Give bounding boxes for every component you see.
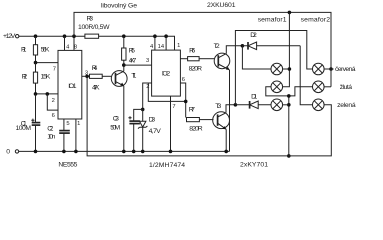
node C1 gnd: [34, 150, 38, 154]
node rail pin14 IO2: [164, 34, 168, 38]
pin 6 IO2: [180, 77, 185, 117]
node rail R1: [34, 34, 38, 38]
svg-text:100M: 100M: [16, 125, 32, 132]
node pin6 branch: [46, 92, 50, 96]
svg-text:žlutá: žlutá: [340, 84, 352, 91]
svg-text:C3: C3: [113, 116, 119, 123]
svg-text:8: 8: [74, 44, 77, 50]
node R1 R2 pin7: [34, 61, 38, 65]
svg-text:1/2MH7474: 1/2MH7474: [149, 162, 185, 169]
svg-text:C2: C2: [47, 126, 53, 133]
wire T1 emitter: [123, 86, 125, 152]
diode D2: [242, 32, 300, 50]
wire n6 vertical: [288, 96, 290, 156]
svg-text:1: 1: [177, 43, 180, 49]
resistor R2: [22, 63, 51, 94]
svg-text:47K: 47K: [92, 85, 100, 92]
pin 4 IO1: [65, 36, 71, 50]
node C2 gnd: [62, 150, 66, 154]
svg-text:0: 0: [6, 149, 10, 156]
svg-text:+12V: +12V: [3, 33, 16, 40]
svg-text:4,7V: 4,7V: [149, 128, 162, 135]
transistor T3: [213, 103, 230, 130]
node green1 right: [287, 103, 291, 107]
svg-text:D1: D1: [251, 93, 257, 100]
svg-text:100R/0,5W: 100R/0,5W: [78, 24, 110, 31]
wire NE555 output bus lower line to green2: [87, 76, 331, 156]
svg-text:R3: R3: [87, 15, 94, 22]
svg-text:NE555: NE555: [58, 162, 77, 169]
wire D2 to green2 lamp: [300, 46, 312, 105]
capacitor C2: [47, 126, 70, 152]
svg-text:6: 6: [182, 77, 185, 83]
pin 14 IO2: [158, 36, 166, 50]
wire yellow1 left loop to n6 and yellow2: [266, 87, 313, 96]
wire +12V rail: [19, 35, 85, 37]
pin 3 IO1 output: [82, 70, 90, 76]
resistor R7: [187, 107, 214, 133]
svg-text:6: 6: [52, 113, 55, 119]
pin 5 IO1: [64, 119, 70, 131]
wire T2 emitter: [229, 70, 231, 151]
wire lamp supply top line: [74, 12, 331, 86]
node T2 collector D2: [241, 44, 245, 48]
wire pin2 IO1: [36, 93, 59, 95]
node T3 emitter gnd: [224, 150, 228, 154]
resistor R6: [188, 47, 215, 72]
resistor R3: [78, 15, 110, 38]
svg-text:červená: červená: [335, 66, 356, 73]
node red2 right: [329, 67, 333, 71]
pin 2 IO2: [143, 83, 152, 109]
svg-text:IO1: IO1: [68, 83, 76, 90]
node rail pin4 IO2: [153, 34, 157, 38]
op-amp IO1 box NE555: [58, 50, 82, 119]
svg-text:zelená: zelená: [337, 102, 356, 109]
lamp red2: [313, 63, 325, 75]
node red1 right: [288, 67, 292, 71]
svg-text:IO2: IO2: [162, 71, 170, 78]
svg-text:D3: D3: [149, 116, 156, 123]
node D3 gnd: [141, 150, 145, 154]
node R2 bottom: [34, 92, 38, 96]
node C3 gnd: [132, 150, 136, 154]
node pin7 gnd: [169, 150, 173, 154]
svg-text:R1: R1: [21, 47, 27, 54]
wire green1 right: [283, 104, 289, 106]
wire bridge T3 to red2 lamp: [235, 31, 312, 105]
wire 0V rail: [19, 150, 230, 152]
node T1 emitter gnd: [122, 150, 126, 154]
node feedback pin6: [184, 100, 188, 104]
node top line semafor branch: [288, 11, 292, 15]
resistor R1: [21, 36, 50, 62]
wire pin7 IO1: [36, 62, 59, 64]
svg-text:56K: 56K: [41, 47, 50, 54]
svg-text:7: 7: [53, 66, 56, 72]
svg-text:7: 7: [172, 104, 175, 110]
svg-text:T2: T2: [214, 43, 220, 50]
svg-text:R4: R4: [92, 65, 98, 72]
wire red2 stub cervena: [324, 68, 334, 70]
zener D3: [138, 109, 161, 151]
svg-text:10n: 10n: [47, 134, 55, 141]
terminal 0: [6, 149, 19, 156]
svg-text:3: 3: [146, 58, 149, 64]
wire T3 emitter: [225, 129, 227, 151]
pin 1 IO1: [76, 119, 81, 151]
node n6 top: [287, 94, 291, 98]
svg-text:4K7: 4K7: [129, 57, 137, 64]
svg-text:1: 1: [77, 121, 80, 127]
svg-text:5: 5: [66, 121, 69, 127]
resistor R4: [90, 65, 112, 91]
svg-text:semafor2: semafor2: [301, 17, 331, 24]
capacitor C1: [16, 94, 41, 151]
svg-text:T1: T1: [131, 73, 136, 80]
node rail pin4 IO1: [63, 34, 67, 38]
wire n1 lamp bus semafor1: [283, 12, 290, 86]
svg-text:semafor1: semafor1: [258, 17, 287, 24]
lamp green1: [271, 99, 283, 111]
svg-text:15K: 15K: [41, 74, 51, 81]
node T3 collector D1 bridge: [234, 103, 238, 107]
wire T3 collector: [226, 105, 235, 113]
pin 8 IO1: [74, 36, 77, 50]
svg-text:50M: 50M: [110, 125, 120, 132]
wire Qbar to D feedback: [148, 83, 185, 101]
lamp yellow1: [271, 81, 283, 93]
svg-text:D2: D2: [250, 32, 257, 39]
node T1 collector R5: [122, 63, 126, 67]
wire T2 collector: [226, 46, 242, 54]
svg-text:2xKY701: 2xKY701: [240, 161, 268, 168]
svg-text:2: 2: [52, 98, 55, 104]
lamp red1: [271, 63, 283, 75]
wire logic rail after R3: [99, 36, 175, 50]
svg-text:820R: 820R: [189, 125, 202, 132]
diode D1: [235, 93, 271, 108]
node D input C3 D3: [141, 108, 145, 112]
pin 7 IO2: [171, 96, 176, 151]
svg-text:R6: R6: [189, 47, 195, 54]
transistor T1: [111, 71, 136, 87]
resistor R5: [122, 36, 137, 65]
svg-text:R7: R7: [189, 107, 195, 114]
svg-text:2XKU601: 2XKU601: [207, 2, 236, 9]
wire T1 collector: [123, 65, 125, 71]
svg-text:820R: 820R: [189, 65, 202, 72]
svg-text:T3: T3: [215, 103, 221, 110]
wire T2 node to red1 lamp: [242, 46, 271, 69]
svg-text:libovolný Ge: libovolný Ge: [101, 3, 137, 10]
wire yellow2 right: [324, 86, 331, 88]
wire pin6 IO1: [47, 94, 58, 110]
terminal +12V: [3, 33, 19, 40]
wire red1 right: [283, 68, 290, 70]
node pin3: [85, 75, 89, 79]
wire clock to IO2 pin3: [124, 64, 152, 66]
pin 4 IO2: [150, 36, 155, 50]
svg-text:14: 14: [158, 44, 165, 50]
svg-text:R5: R5: [129, 48, 135, 55]
transistor T2: [214, 43, 230, 70]
svg-text:R2: R2: [22, 74, 28, 81]
lamp green2: [313, 99, 325, 111]
node rail pin8 IO1: [72, 34, 76, 38]
lamp yellow2: [313, 81, 325, 93]
pin 5 IO2: [180, 58, 187, 60]
capacitor C3: [110, 109, 143, 151]
node pin1 gnd: [74, 150, 78, 154]
op-amp IO2 box MH7474: [152, 50, 181, 96]
node rail R5: [122, 34, 126, 38]
node n6 bottom: [287, 154, 291, 158]
